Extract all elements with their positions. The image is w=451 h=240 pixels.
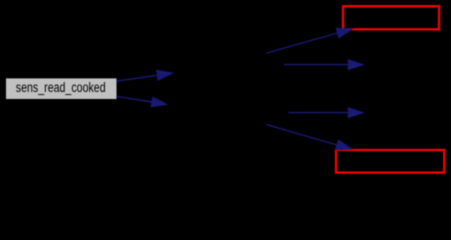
edge 1: grey box to upper middle node (116, 70, 172, 81)
edge 2: grey box to lower middle node (116, 96, 167, 106)
call graph canvas (0, 0, 451, 179)
node sens_read_cooked (grey box) (6, 78, 117, 99)
node red box top (343, 6, 439, 29)
edge 4: middle to right node (upper horizontal) (284, 60, 363, 70)
edge 3: middle to red box top (diagonal up) (267, 28, 353, 53)
edge 6: middle to red box bottom (diagonal down) (267, 125, 352, 150)
node red box bottom (336, 150, 444, 173)
edge 5: middle to right node (lower horizontal) (289, 108, 364, 118)
svg-text:sens_read_cooked: sens_read_cooked (16, 80, 106, 96)
